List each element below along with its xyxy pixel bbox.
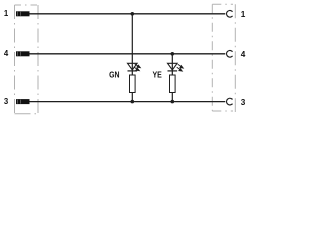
svg-text:4: 4 — [241, 50, 246, 59]
svg-text:4: 4 — [4, 49, 9, 58]
svg-text:3: 3 — [4, 97, 9, 106]
svg-text:1: 1 — [241, 10, 246, 19]
svg-text:YE: YE — [153, 70, 163, 79]
svg-text:GN: GN — [109, 70, 120, 79]
svg-text:3: 3 — [241, 98, 246, 107]
svg-text:1: 1 — [4, 9, 9, 18]
